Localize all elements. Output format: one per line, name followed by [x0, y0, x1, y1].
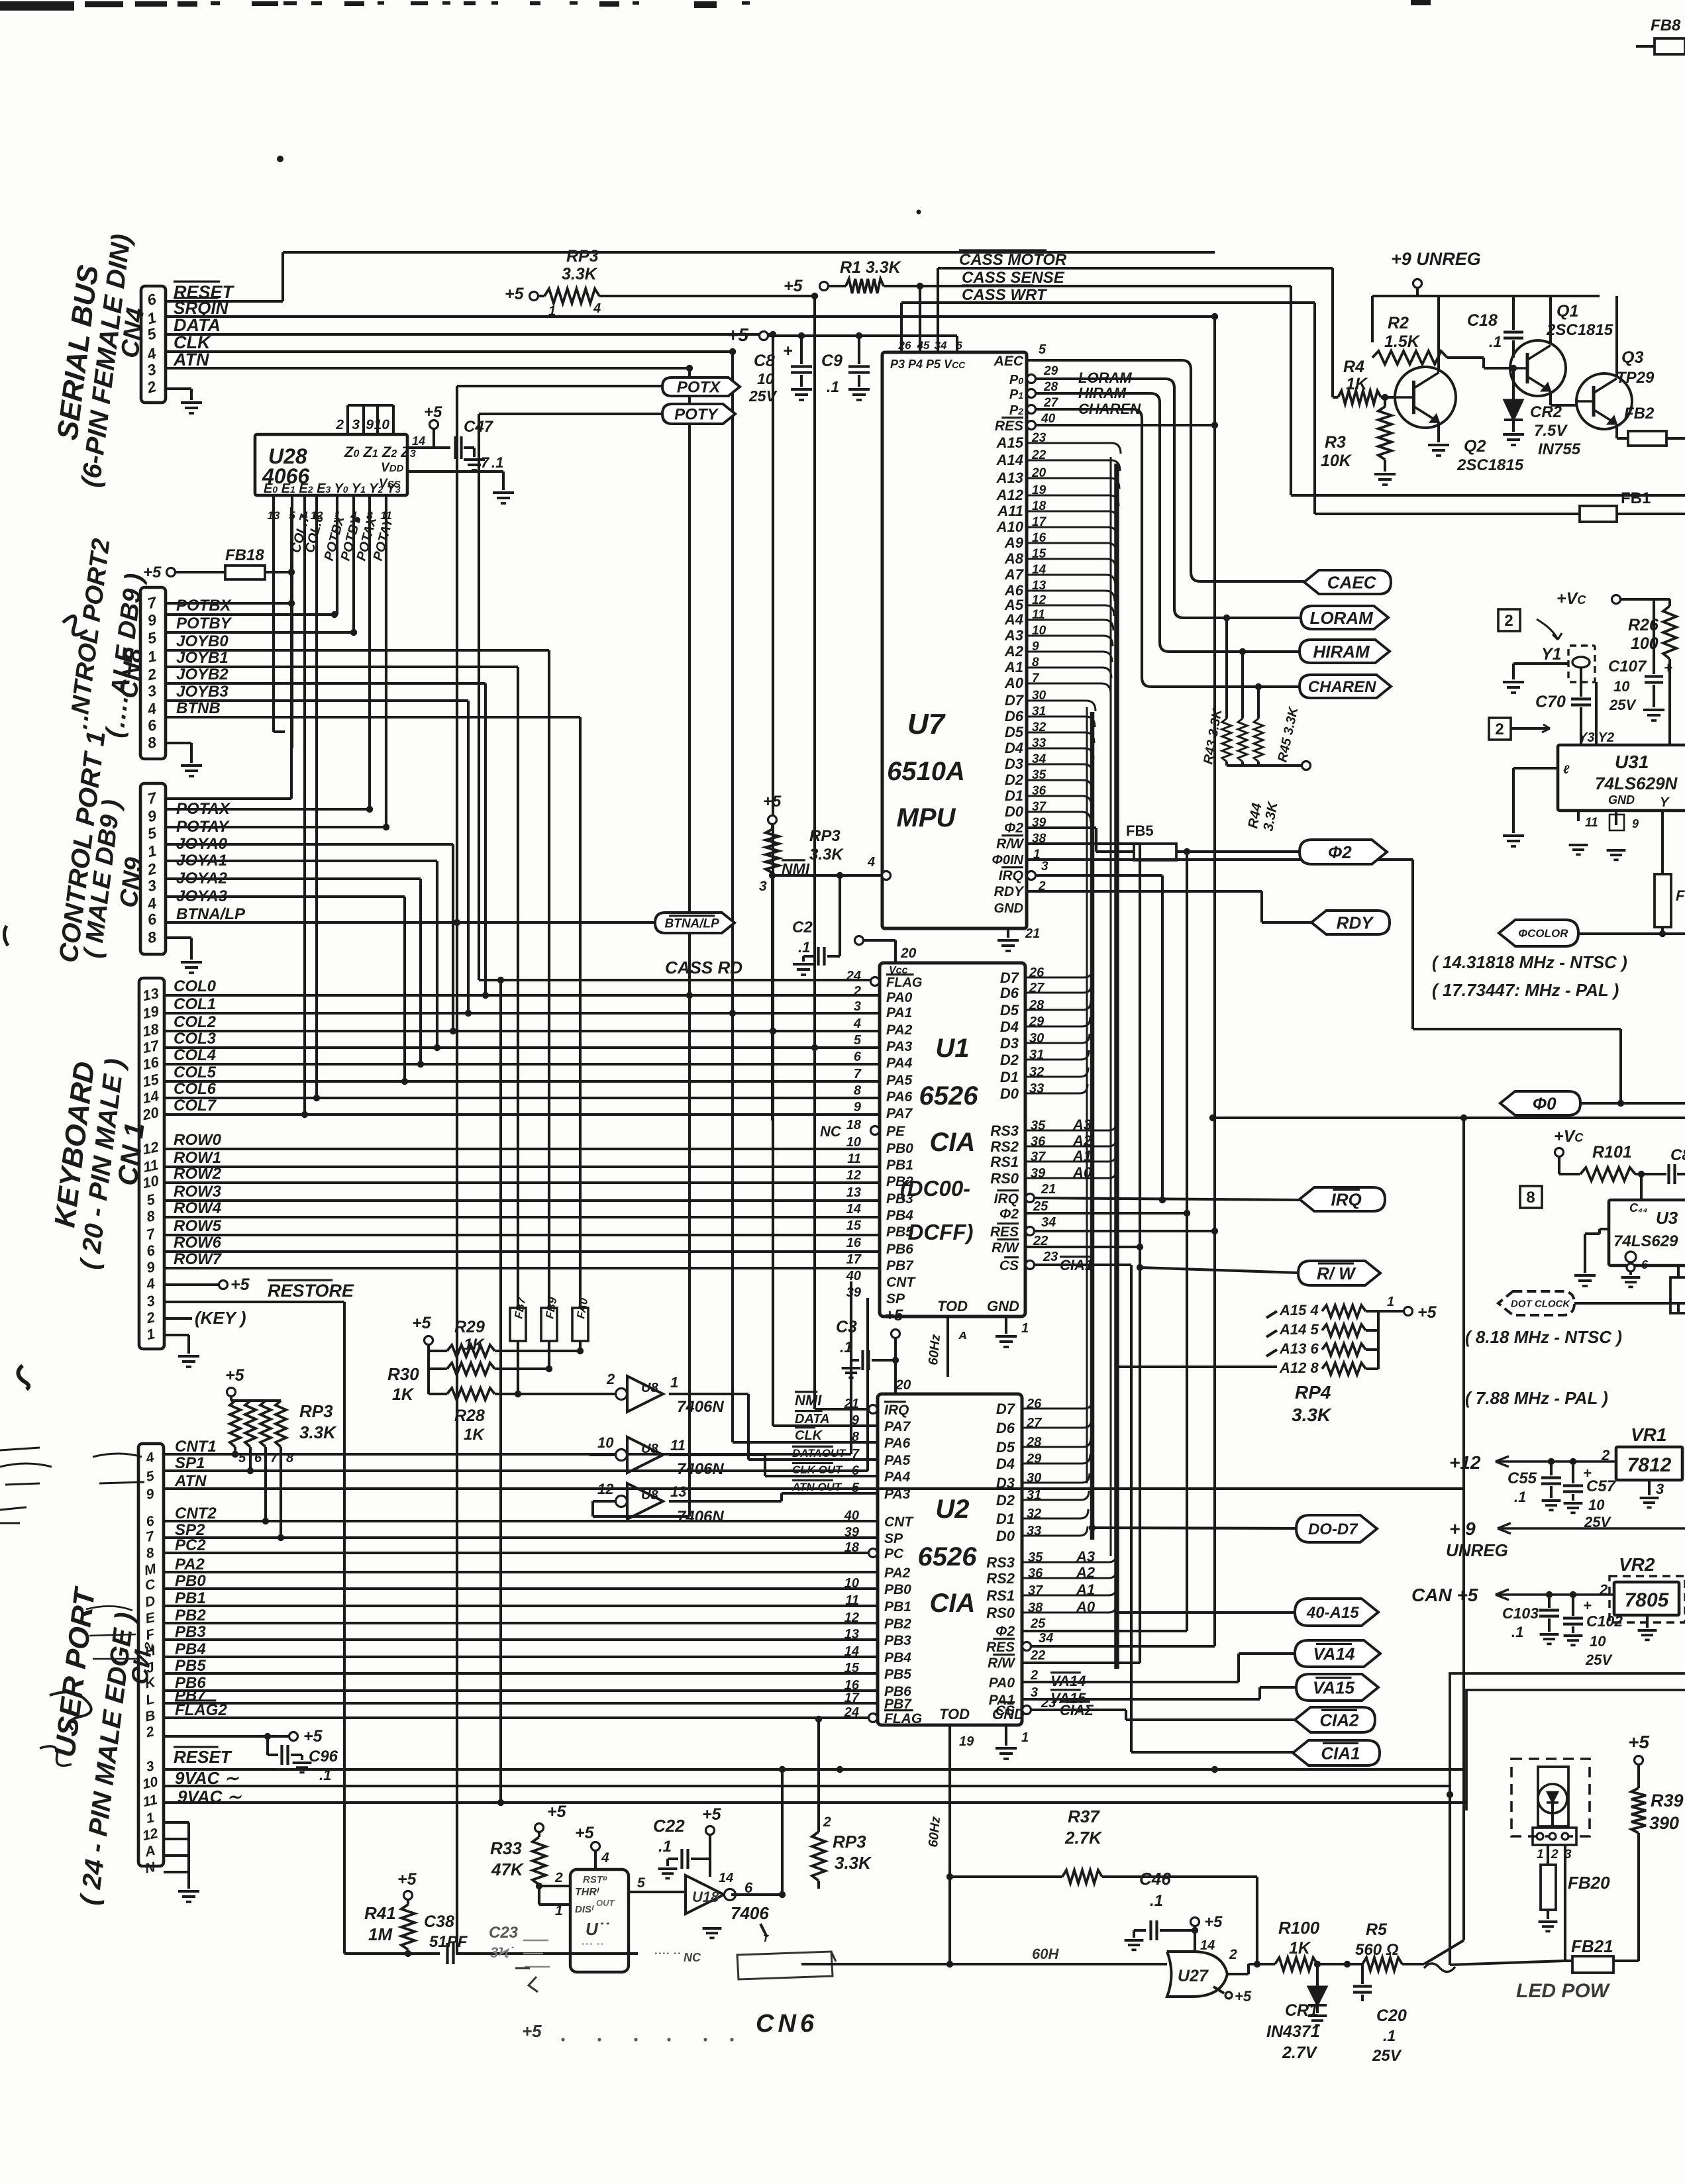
svg-text:PA3: PA3: [884, 1487, 911, 1502]
svg-text:U3: U3: [1656, 1208, 1678, 1228]
svg-text:20: 20: [895, 1377, 911, 1393]
svg-text:18: 18: [844, 1540, 860, 1555]
svg-text:U1: U1: [935, 1034, 969, 1063]
svg-text:D2: D2: [996, 1492, 1015, 1509]
wire vertical mid drop B: [817, 1719, 820, 1832]
svg-text:PB1: PB1: [884, 1599, 911, 1614]
svg-text:CHAREN: CHAREN: [1308, 678, 1376, 696]
svg-text:19: 19: [959, 1734, 974, 1749]
svg-text:D5: D5: [1000, 1002, 1019, 1018]
svg-text:74LS629: 74LS629: [1613, 1232, 1678, 1250]
svg-text:60Hz: 60Hz: [926, 1334, 943, 1365]
svg-text:D0: D0: [1005, 803, 1024, 820]
svg-text:U8: U8: [641, 1381, 658, 1395]
wire squiggle (to LED): [1424, 1963, 1455, 1972]
svg-text:D7: D7: [1000, 969, 1020, 986]
svg-text:ROW5: ROW5: [174, 1217, 222, 1235]
svg-text:PB5: PB5: [886, 1224, 913, 1240]
svg-text:ℓ: ℓ: [1563, 763, 1570, 776]
wire ATN to gate c: [593, 1515, 689, 1518]
svg-text:E0 E1 E2 E3 Y0 Y1 Y2 Y3: E0 E1 E2 E3 Y0 Y1 Y2 Y3: [264, 481, 401, 496]
svg-text:11: 11: [847, 1152, 861, 1166]
svg-text:Φ2: Φ2: [1004, 820, 1023, 836]
svg-text:Q2: Q2: [1464, 437, 1486, 456]
inverter U8 7406N b: [627, 1437, 663, 1473]
svg-text:SP: SP: [886, 1291, 905, 1307]
svg-text:CIA: CIA: [930, 1128, 976, 1157]
svg-text:+9 UNREG: +9 UNREG: [1391, 249, 1481, 269]
svg-text:A8: A8: [1004, 550, 1024, 567]
svg-text:34: 34: [1039, 1631, 1053, 1646]
svg-text:COL3: COL3: [174, 1030, 217, 1048]
svg-text:+5: +5: [225, 1366, 245, 1385]
svg-text:PB6: PB6: [886, 1242, 913, 1257]
svg-text:5: 5: [854, 1033, 862, 1048]
svg-text:47K: 47K: [491, 1860, 525, 1879]
wire address bus band: [1114, 464, 1119, 1669]
svg-text:COL2: COL2: [174, 1013, 217, 1031]
svg-text:.1: .1: [840, 1338, 852, 1356]
svg-text:1: 1: [548, 304, 556, 319]
svg-text:14: 14: [844, 1644, 859, 1659]
wire 60Hz into gate: [801, 1963, 1167, 1965]
svg-text:JOYB1: JOYB1: [176, 649, 229, 667]
svg-text:560 Ω: 560 Ω: [1355, 1941, 1399, 1959]
svg-text:12: 12: [846, 1168, 861, 1183]
svg-text:POTBY: POTBY: [176, 615, 232, 632]
svg-text:23: 23: [1041, 1696, 1056, 1711]
svg-text:R41: R41: [364, 1903, 396, 1923]
svg-text:C57: C57: [1586, 1477, 1617, 1495]
flag CHAREN: [1300, 675, 1391, 698]
svg-text:R28: R28: [454, 1407, 485, 1425]
wire CN9 pin7 +5: [166, 797, 291, 800]
svg-text:PA2: PA2: [884, 1565, 911, 1581]
svg-text:1: 1: [670, 1374, 678, 1391]
flag POTY: [662, 404, 735, 424]
wire 556 pin4 +5: [594, 1851, 597, 1869]
svg-text:(KEY ): (KEY ): [195, 1308, 246, 1328]
svg-text:+5: +5: [1628, 1732, 1649, 1752]
wire E0 drop: [272, 509, 275, 732]
wire POTBY vertical: [352, 509, 355, 632]
svg-text:7406N: 7406N: [677, 1460, 724, 1478]
svg-text:17: 17: [844, 1691, 860, 1705]
ferrite bead FB20: [1547, 1845, 1549, 1865]
LED connector 3 pin: [1533, 1828, 1576, 1845]
svg-text:R33: R33: [490, 1838, 522, 1858]
flag PHI COLOR: [1499, 920, 1578, 946]
NOR gate U27 7427: [1167, 1952, 1227, 1997]
svg-text:PB0: PB0: [884, 1582, 911, 1597]
IC U3 74LS629N: [1640, 1174, 1643, 1200]
svg-text:CLK OUT: CLK OUT: [792, 1464, 843, 1476]
svg-text:40: 40: [844, 1509, 859, 1523]
svg-text:PA5: PA5: [886, 1073, 913, 1088]
svg-text:C₄₄: C₄₄: [1629, 1201, 1647, 1215]
svg-text:21: 21: [1041, 1182, 1056, 1197]
svg-text:10: 10: [757, 370, 774, 387]
svg-text:11: 11: [670, 1437, 686, 1454]
svg-text:.1: .1: [798, 939, 810, 956]
svg-text:RS0: RS0: [986, 1605, 1015, 1621]
svg-text:U7: U7: [907, 708, 946, 740]
svg-text:PA4: PA4: [884, 1469, 911, 1485]
svg-text:ᴛ: ᴛ: [763, 1931, 769, 1944]
svg-text:3: 3: [1031, 1685, 1038, 1700]
wire POTBY2: [166, 631, 354, 634]
svg-text:R37: R37: [1068, 1807, 1100, 1826]
zener CR2 7.5V IN755: [1512, 381, 1515, 400]
svg-text:25: 25: [1030, 1616, 1046, 1631]
svg-text:10: 10: [597, 1434, 614, 1451]
svg-text:CNT: CNT: [886, 1275, 916, 1290]
svg-text:UNREG: UNREG: [1446, 1540, 1508, 1560]
svg-text:D1: D1: [996, 1511, 1015, 1527]
svg-text:PB7: PB7: [886, 1258, 914, 1273]
svg-text:25: 25: [1033, 1199, 1048, 1214]
wire POTAY vertical: [385, 509, 387, 827]
svg-text:D4: D4: [1000, 1018, 1019, 1035]
svg-text:PB2: PB2: [884, 1616, 911, 1632]
svg-text:3.3K: 3.3K: [809, 846, 844, 864]
ferrite bead FB2: [1615, 424, 1618, 438]
svg-text:RES: RES: [995, 419, 1023, 434]
svg-text:13: 13: [846, 1185, 861, 1200]
svg-text:R39: R39: [1651, 1791, 1684, 1811]
svg-text:10K: 10K: [1321, 452, 1353, 470]
svg-text:6526: 6526: [918, 1542, 978, 1571]
wire 556 output to 7406: [629, 1891, 686, 1893]
svg-text:U27: U27: [1178, 1967, 1209, 1985]
svg-text:PA6: PA6: [886, 1089, 913, 1105]
svg-text:60H: 60H: [1032, 1946, 1059, 1962]
svg-text:PA1: PA1: [886, 1005, 912, 1020]
svg-text:1: 1: [1387, 1295, 1394, 1309]
junction dots misc: [770, 331, 776, 338]
svg-text:RS2: RS2: [990, 1138, 1019, 1155]
svg-text:D2: D2: [1000, 1052, 1019, 1068]
svg-text:3.3K: 3.3K: [299, 1422, 337, 1442]
svg-text:A1: A1: [1004, 659, 1023, 675]
wire CN2 pin2 +5: [164, 1735, 289, 1738]
svg-text:2SC1815: 2SC1815: [1456, 456, 1524, 474]
flag CIA1: [1293, 1740, 1380, 1765]
flag LORAM: [1301, 606, 1388, 629]
svg-text:8: 8: [1526, 1189, 1535, 1207]
flag VA15: [1296, 1674, 1378, 1701]
svg-text:CAN +5: CAN +5: [1411, 1585, 1478, 1605]
svg-text:1: 1: [1021, 1730, 1029, 1745]
wire data bus band: [1090, 712, 1095, 1540]
wire CN1 pin4 +5: [164, 1283, 219, 1286]
svg-text:DCFF): DCFF): [908, 1220, 974, 1244]
svg-text:POTY: POTY: [674, 406, 719, 424]
svg-text:2: 2: [1030, 1668, 1038, 1683]
inverter U8 7406N a: [627, 1376, 663, 1412]
svg-text:A14: A14: [996, 452, 1023, 468]
svg-text:FB21: FB21: [1571, 1936, 1613, 1956]
svg-text:13: 13: [844, 1627, 859, 1642]
svg-text:D6: D6: [1005, 708, 1024, 724]
svg-text:4: 4: [601, 1850, 609, 1865]
svg-text:RS3: RS3: [990, 1122, 1019, 1139]
svg-text:10: 10: [844, 1576, 859, 1591]
svg-text:( 8.18 MHz - NTSC ): ( 8.18 MHz - NTSC ): [1465, 1327, 1622, 1347]
wire bias rail: [1372, 295, 1600, 297]
svg-text:JOYB0: JOYB0: [176, 632, 229, 650]
svg-text:7805: 7805: [1625, 1589, 1670, 1611]
svg-text:2: 2: [554, 1870, 563, 1885]
svg-text:RP4: RP4: [1295, 1382, 1331, 1403]
svg-text:6510A: 6510A: [887, 757, 965, 786]
svg-text:A9: A9: [1004, 534, 1024, 551]
svg-text:P1: P1: [1009, 387, 1023, 402]
svg-text:JOYB2: JOYB2: [176, 666, 229, 683]
wire RESTORE bottom run: [343, 1302, 346, 1954]
svg-text:74LS629N: 74LS629N: [1595, 773, 1678, 793]
svg-text:R100: R100: [1278, 1918, 1320, 1938]
svg-text:PB0: PB0: [886, 1141, 913, 1156]
svg-text:+5: +5: [412, 1314, 432, 1332]
svg-text:TP29: TP29: [1616, 369, 1655, 387]
U28 bottom pin numbers: [272, 495, 275, 509]
svg-text:R26: R26: [1628, 616, 1659, 634]
svg-text:11: 11: [1585, 816, 1598, 830]
IC U20 556 timer: [570, 1869, 629, 1972]
wire R43-45 common to +5: [1227, 764, 1302, 767]
svg-text:CASS RD: CASS RD: [665, 958, 742, 977]
svg-text:POTX: POTX: [677, 379, 721, 397]
svg-text:22: 22: [1030, 1648, 1045, 1663]
svg-text:CLK: CLK: [795, 1428, 823, 1443]
wire vertical SRQIN drop: [813, 296, 816, 1409]
svg-text:10: 10: [374, 417, 390, 432]
LED dashed box: [1511, 1759, 1590, 1836]
svg-text:21: 21: [844, 1397, 859, 1411]
svg-text:D3: D3: [1005, 756, 1023, 772]
connector CN1: [139, 978, 164, 1349]
svg-text:40: 40: [1041, 412, 1056, 426]
svg-text:DISᴵ: DISᴵ: [575, 1904, 594, 1915]
svg-text:VR1: VR1: [1631, 1424, 1666, 1445]
svg-text:.1: .1: [1489, 333, 1502, 350]
svg-text:25V: 25V: [1585, 1652, 1613, 1668]
svg-text:3: 3: [352, 417, 360, 432]
svg-text:PB3: PB3: [884, 1633, 911, 1648]
svg-text:( 14.31818 MHz - NTSC ): ( 14.31818 MHz - NTSC ): [1432, 952, 1627, 972]
svg-text:R/ W: R/ W: [1317, 1264, 1356, 1283]
svg-text:COL7: COL7: [174, 1097, 217, 1115]
svg-text:R/W: R/W: [992, 1240, 1020, 1256]
svg-text:Φ2: Φ2: [996, 1624, 1015, 1639]
wire POTBX vertical: [336, 509, 338, 615]
svg-text:ROW1: ROW1: [174, 1149, 221, 1167]
svg-text:D1: D1: [1000, 1069, 1019, 1085]
svg-text:PA3: PA3: [886, 1039, 913, 1054]
capacitor C5 .1: [1550, 1462, 1553, 1475]
svg-text:Φ2: Φ2: [1328, 842, 1352, 862]
svg-text:POTBX: POTBX: [176, 597, 232, 615]
svg-text:ᴀ: ᴀ: [958, 1328, 967, 1342]
label (KEY): [164, 1317, 192, 1320]
svg-text:C38: C38: [424, 1912, 454, 1931]
svg-text:COL5: COL5: [174, 1064, 217, 1081]
svg-text:D2: D2: [1005, 771, 1024, 788]
svg-text:BTNA/LP: BTNA/LP: [665, 917, 720, 930]
svg-text:RES: RES: [990, 1224, 1019, 1240]
svg-text:PA5: PA5: [884, 1453, 911, 1468]
resistor R45 3.3K: [1257, 687, 1260, 719]
wire vertical ATN drop: [688, 368, 691, 1516]
svg-text:7812: 7812: [1627, 1454, 1672, 1476]
svg-text:R4: R4: [1343, 358, 1364, 376]
svg-text:2SC1815: 2SC1815: [1546, 321, 1613, 339]
wire border vertical to LED net: [1449, 1795, 1451, 1965]
svg-text:D0: D0: [1000, 1085, 1019, 1102]
capacitor C57 10 25V: [1572, 1462, 1574, 1483]
svg-text:D1: D1: [1005, 787, 1023, 804]
svg-text:Y1: Y1: [1541, 645, 1562, 664]
svg-text:RESET: RESET: [174, 1747, 232, 1767]
svg-text:2: 2: [1504, 612, 1513, 630]
svg-text:FB1: FB1: [1621, 489, 1651, 507]
svg-text:CNT: CNT: [884, 1514, 914, 1530]
svg-text:2: 2: [606, 1371, 615, 1387]
svg-text:U˙˙: U˙˙: [586, 1919, 609, 1939]
svg-text:CS: CS: [999, 1258, 1019, 1273]
svg-text:C55: C55: [1507, 1469, 1537, 1487]
svg-text:C18: C18: [1467, 311, 1498, 330]
svg-text:PB3: PB3: [886, 1191, 913, 1207]
svg-text:9: 9: [854, 1100, 862, 1115]
svg-text:10: 10: [846, 1135, 861, 1150]
svg-text:PA4: PA4: [886, 1056, 913, 1071]
svg-text:.1: .1: [1383, 2027, 1396, 2044]
svg-text:+5: +5: [702, 1805, 722, 1824]
svg-text:P3 P4 P5 VCC: P3 P4 P5 VCC: [890, 358, 966, 371]
svg-text:ROW4: ROW4: [174, 1199, 221, 1217]
svg-text:8: 8: [852, 1430, 860, 1444]
svg-text:CR1: CR1: [1285, 2001, 1318, 2020]
svg-text:C107: C107: [1608, 658, 1647, 675]
svg-text:.1: .1: [1150, 1892, 1163, 1910]
svg-text:+: +: [783, 342, 793, 360]
svg-text:60Hz: 60Hz: [926, 1816, 943, 1848]
flag RDY: [1311, 911, 1390, 934]
svg-text:TOD: TOD: [939, 1706, 970, 1722]
svg-text:DO-D7: DO-D7: [1308, 1520, 1358, 1538]
svg-text:10: 10: [1590, 1633, 1606, 1650]
U28 top pins 2 3 9 10: [346, 405, 349, 434]
svg-text:1M: 1M: [368, 1924, 393, 1944]
svg-text:RP3: RP3: [566, 247, 599, 266]
svg-text:FB8: FB8: [1651, 17, 1681, 34]
svg-text:A14 5: A14 5: [1279, 1321, 1319, 1338]
svg-text:1: 1: [1021, 1321, 1029, 1336]
flag VA14: [1295, 1640, 1380, 1667]
gate U27 +5 pin: [1213, 1987, 1224, 1993]
capacitor C20 .1 25V: [1361, 1964, 1364, 1984]
wire POTAX vertical: [368, 509, 371, 809]
ferrite bead FB19: [1655, 874, 1671, 927]
flag HIRAM: [1300, 640, 1390, 663]
svg-text:23: 23: [1043, 1250, 1058, 1264]
transistor Q2 2SC1815: [1395, 367, 1456, 428]
svg-text:CASS MOTOR: CASS MOTOR: [959, 251, 1067, 269]
svg-text:R5: R5: [1366, 1920, 1388, 1939]
U7 P2 pin 27 CHAREN: [1027, 405, 1036, 414]
svg-text:5: 5: [1039, 342, 1047, 357]
svg-text:CN6: CN6: [756, 2010, 818, 2038]
svg-text:IRQ: IRQ: [994, 1191, 1019, 1207]
svg-text:2: 2: [853, 984, 861, 999]
svg-text:U8: U8: [641, 1488, 658, 1503]
svg-text:13: 13: [670, 1483, 686, 1500]
svg-text:14: 14: [846, 1202, 861, 1216]
svg-text:3.3K: 3.3K: [562, 265, 598, 283]
svg-text:( 7.88 MHz - PAL ): ( 7.88 MHz - PAL ): [1465, 1388, 1608, 1408]
svg-text:RP3: RP3: [299, 1401, 333, 1421]
svg-text:A12: A12: [996, 487, 1024, 503]
svg-text:1: 1: [555, 1903, 563, 1918]
svg-text:A12 8: A12 8: [1279, 1360, 1319, 1376]
U28 pin14 to +5 and C47: [407, 446, 434, 449]
svg-text:1K: 1K: [1289, 1939, 1311, 1958]
svg-text:12: 12: [844, 1611, 859, 1625]
svg-text:+5: +5: [522, 2021, 542, 2041]
svg-text:1.5K: 1.5K: [1384, 332, 1421, 351]
svg-text:+5: +5: [763, 793, 782, 811]
svg-text:PC: PC: [884, 1546, 904, 1562]
wire vertical CLK drop: [731, 352, 734, 1442]
svg-text:6: 6: [956, 339, 962, 352]
svg-text:GND: GND: [1608, 793, 1635, 807]
svg-text:CIA2: CIA2: [1319, 1710, 1359, 1730]
svg-text:PA0: PA0: [886, 990, 913, 1005]
connector CN4: [141, 286, 166, 403]
svg-text:A0: A0: [1004, 675, 1024, 691]
svg-text:D4: D4: [1005, 740, 1023, 756]
svg-text:C46: C46: [1139, 1869, 1171, 1889]
svg-text:VDD: VDD: [381, 461, 404, 475]
junction dot phi0: [1617, 1100, 1624, 1107]
resistor R44 3.3K: [1241, 652, 1244, 719]
svg-text:CAEC: CAEC: [1327, 572, 1377, 592]
svg-text:PA6: PA6: [884, 1436, 911, 1451]
svg-text:6: 6: [1641, 1258, 1649, 1271]
svg-text:R101: R101: [1592, 1143, 1632, 1162]
svg-text:Q3: Q3: [1621, 348, 1643, 367]
svg-text:R3: R3: [1325, 433, 1346, 452]
page ref 8 box: [1520, 1186, 1542, 1208]
wire POTX: [457, 385, 662, 387]
svg-text:C103: C103: [1502, 1605, 1539, 1622]
flag BTNA/LP: [655, 913, 735, 933]
wire LED pin3 down: [1564, 1845, 1566, 1961]
svg-text:39: 39: [844, 1525, 860, 1540]
ground CN8 pin8: [166, 742, 191, 744]
svg-text:R2: R2: [1388, 314, 1409, 332]
wire POTY: [479, 413, 662, 415]
svg-text:NC: NC: [820, 1123, 842, 1140]
svg-text:IN4371: IN4371: [1266, 2022, 1320, 2041]
connector CN8: [140, 587, 166, 759]
svg-text:4: 4: [593, 301, 601, 316]
IC U2 6526 CIA: [878, 1394, 1022, 1725]
flag PHI0: [1500, 1091, 1580, 1115]
flag PHI2: [1300, 840, 1387, 864]
